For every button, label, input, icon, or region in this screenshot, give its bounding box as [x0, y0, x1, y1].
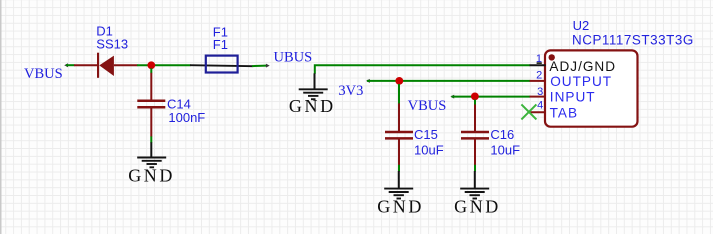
junction: [147, 61, 155, 69]
wire: [398, 165, 400, 172]
svg-text:TAB: TAB: [550, 106, 578, 121]
svg-text:2: 2: [536, 70, 542, 82]
svg-text:GND: GND: [377, 197, 424, 217]
svg-text:100nF: 100nF: [168, 110, 205, 125]
svg-text:4: 4: [537, 99, 543, 111]
junction: [395, 77, 403, 85]
wire: [64, 63, 74, 67]
diode D1: [74, 53, 138, 78]
svg-text:F1: F1: [213, 37, 228, 52]
svg-text:ADJ/GND: ADJ/GND: [549, 59, 616, 74]
wire: [315, 65, 530, 74]
svg-text:NCP1117ST33T3G: NCP1117ST33T3G: [572, 33, 694, 48]
wire: [150, 136, 152, 142]
wire: [474, 165, 476, 172]
svg-text:VBUS: VBUS: [24, 66, 63, 82]
svg-text:SS13: SS13: [96, 36, 128, 51]
wire: [252, 64, 270, 68]
svg-text:C15: C15: [414, 127, 438, 142]
power port GND: [289, 73, 336, 116]
svg-text:3V3: 3V3: [338, 83, 363, 99]
regulator U2 body: [545, 50, 638, 126]
svg-text:GND: GND: [454, 197, 501, 217]
svg-text:INPUT: INPUT: [550, 89, 596, 104]
pin 2: [530, 80, 546, 82]
ground: [128, 142, 175, 185]
wire: [137, 64, 191, 66]
fuse F1: [190, 56, 253, 73]
pin 4: [529, 111, 546, 113]
wire: [474, 100, 476, 105]
no-connect X on pin 4: [521, 104, 536, 119]
svg-text:VBUS: VBUS: [408, 98, 447, 114]
svg-text:U2: U2: [573, 18, 590, 33]
svg-text:UBUS: UBUS: [274, 50, 313, 66]
ground: [454, 171, 501, 217]
svg-text:OUTPUT: OUTPUT: [550, 74, 612, 89]
pin 1 number underline: [537, 62, 542, 64]
capacitor C16: [461, 105, 489, 166]
svg-text:3: 3: [537, 86, 543, 98]
wire: [450, 95, 530, 99]
capacitor C15: [385, 103, 413, 165]
svg-text:GND: GND: [128, 166, 175, 186]
pin 1: [530, 64, 546, 66]
pin 3: [530, 96, 546, 98]
ground: [377, 171, 424, 217]
capacitor C14: [137, 68, 165, 136]
svg-text:C16: C16: [490, 127, 514, 142]
wire: [366, 79, 530, 83]
svg-text:GND: GND: [289, 96, 336, 116]
wire: [398, 84, 400, 104]
svg-text:1: 1: [536, 53, 542, 65]
junction: [471, 93, 479, 101]
svg-text:10uF: 10uF: [490, 142, 520, 157]
svg-text:10uF: 10uF: [414, 142, 444, 157]
